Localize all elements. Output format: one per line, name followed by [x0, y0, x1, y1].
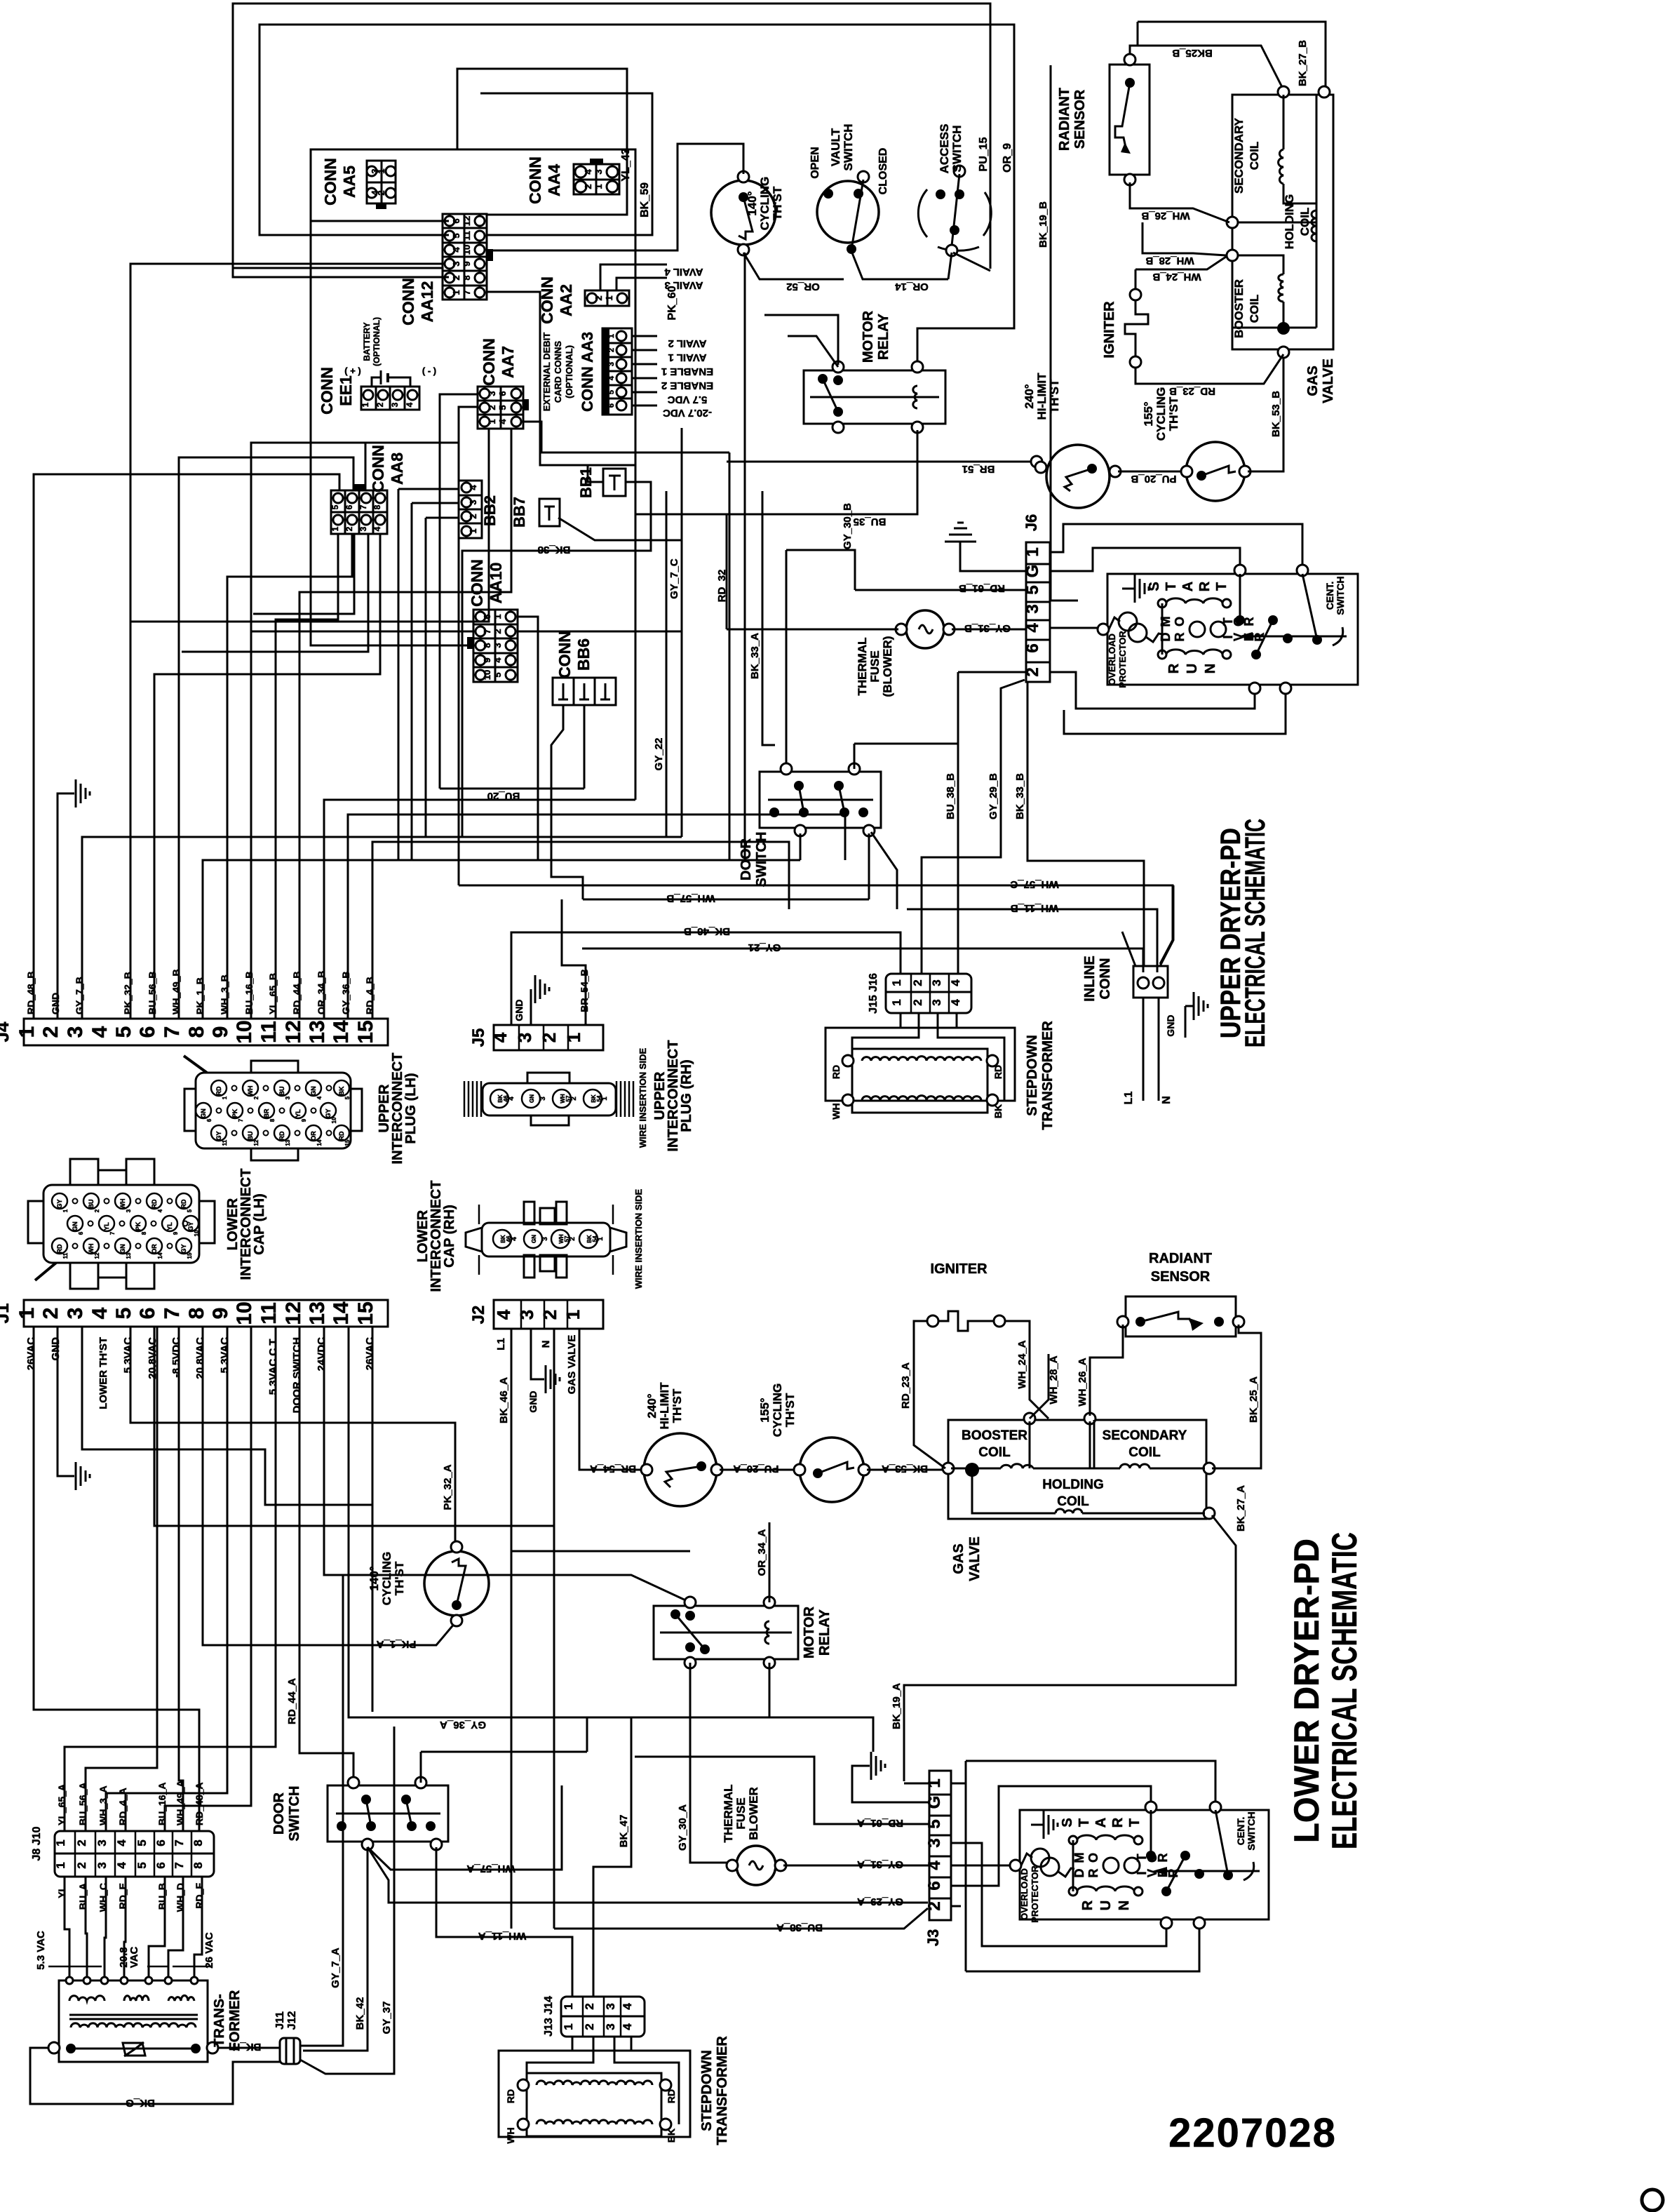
svg-text:5.3VAC: 5.3VAC — [219, 1337, 231, 1374]
thermostat 155 CYCLING THST lower — [800, 1437, 864, 1502]
wire J1 p2 GND — [58, 1327, 74, 1476]
connector J2 bar — [494, 1300, 603, 1329]
connector J1 bar — [24, 1300, 388, 1327]
wire door top right from GY_36 vertical — [420, 1752, 422, 1783]
svg-text:N: N — [1161, 1096, 1173, 1104]
connector CONN AA7 — [478, 387, 523, 429]
svg-text:WH_3_B: WH_3_B — [219, 974, 230, 1014]
ground at J3 — [852, 1766, 929, 1802]
svg-text:240°: 240° — [645, 1393, 659, 1418]
svg-text:6: 6 — [497, 391, 508, 396]
wires BB6 bottom — [551, 705, 583, 899]
svg-text:( - ): ( - ) — [422, 366, 436, 376]
svg-text:GY_7_A: GY_7_A — [330, 1948, 342, 1988]
svg-text:6: 6 — [925, 1881, 944, 1890]
svg-text:2: 2 — [583, 2003, 596, 2009]
svg-text:4: 4 — [115, 1862, 128, 1869]
svg-text:3: 3 — [593, 169, 604, 174]
wire J1 p12 RD_44_A — [299, 1327, 353, 1783]
svg-text:WH: WH — [247, 1086, 254, 1097]
svg-text:11: 11 — [62, 1252, 69, 1259]
svg-text:9: 9 — [173, 1231, 179, 1235]
wire 140thst bottom to OR_52 — [743, 253, 844, 279]
svg-text:7: 7 — [461, 290, 472, 295]
svg-text:5: 5 — [344, 1096, 351, 1099]
svg-text:155°: 155° — [758, 1397, 771, 1422]
svg-text:2: 2 — [39, 1308, 62, 1320]
svg-text:10: 10 — [482, 670, 492, 680]
svg-text:BK_42: BK_42 — [354, 1997, 366, 2030]
svg-text:BK_G: BK_G — [126, 2097, 155, 2109]
svg-text:J1: J1 — [0, 1303, 13, 1324]
svg-text:3: 3 — [95, 1839, 109, 1846]
svg-text:8: 8 — [269, 1118, 276, 1122]
svg-text:1: 1 — [451, 290, 461, 295]
svg-text:RD: RD — [180, 1199, 187, 1208]
svg-text:1: 1 — [15, 1026, 39, 1038]
svg-text:4: 4 — [88, 1026, 112, 1038]
svg-text:GN: GN — [200, 1108, 207, 1118]
svg-text:OR_34_A: OR_34_A — [756, 1529, 768, 1576]
svg-text:1: 1 — [62, 1209, 69, 1212]
svg-text:AA4: AA4 — [545, 164, 563, 196]
svg-text:CAP (RH): CAP (RH) — [442, 1205, 457, 1268]
wire GY_21 — [582, 949, 1143, 972]
wire GY_7_C — [518, 631, 682, 633]
svg-text:BK_46_A: BK_46_A — [498, 1377, 510, 1423]
punch hole circle — [1642, 2190, 1663, 2211]
svg-text:RD_4_B: RD_4_B — [364, 977, 375, 1014]
svg-text:S: S — [1147, 582, 1162, 591]
svg-text:14: 14 — [157, 1252, 163, 1259]
svg-text:PU_20_B: PU_20_B — [1131, 473, 1176, 485]
svg-text:CENT.: CENT. — [1324, 582, 1335, 610]
svg-text:5: 5 — [451, 233, 461, 238]
svg-text:2: 2 — [570, 1097, 578, 1101]
svg-text:CONN: CONN — [468, 559, 486, 607]
wire GY_22 — [666, 491, 668, 837]
svg-text:SWITCH: SWITCH — [287, 1786, 302, 1842]
svg-text:CONN AA3: CONN AA3 — [579, 332, 596, 412]
svg-text:3: 3 — [492, 643, 503, 648]
svg-text:BR_54_A: BR_54_A — [590, 1463, 636, 1475]
svg-text:GY_21: GY_21 — [748, 941, 781, 953]
svg-text:WIRE INSERTION SIDE: WIRE INSERTION SIDE — [633, 1189, 644, 1289]
svg-text:4: 4 — [949, 979, 962, 986]
svg-text:AVAIL 1: AVAIL 1 — [668, 351, 706, 363]
svg-text:BK: BK — [992, 1104, 1004, 1118]
svg-text:OVERLOAD: OVERLOAD — [1107, 634, 1117, 685]
svg-text:3: 3 — [514, 1033, 535, 1043]
svg-text:1: 1 — [222, 1096, 228, 1099]
wire WH_24_B — [1135, 257, 1226, 269]
svg-text:BOOSTER: BOOSTER — [1232, 279, 1246, 338]
svg-text:CONN: CONN — [526, 156, 544, 204]
sensor RADIANT SENSOR lower — [1126, 1296, 1236, 1336]
svg-text:13: 13 — [306, 1020, 329, 1043]
svg-text:9: 9 — [209, 1026, 232, 1038]
svg-text:7: 7 — [161, 1308, 184, 1320]
svg-text:1: 1 — [330, 526, 340, 531]
svg-text:TRANSFORMER: TRANSFORMER — [715, 2036, 730, 2145]
wire J1 p7 WH_49_A — [179, 1327, 183, 1831]
wire J1 p10 BU_16_A — [165, 1327, 251, 1831]
svg-text:26VAC: 26VAC — [25, 1337, 37, 1370]
svg-text:4: 4 — [115, 1839, 128, 1846]
svg-text:GN: GN — [310, 1086, 317, 1096]
svg-text:SECONDARY: SECONDARY — [1103, 1428, 1187, 1443]
svg-text:1: 1 — [376, 168, 386, 173]
svg-text:J11: J11 — [274, 2011, 286, 2030]
svg-text:WH_C: WH_C — [97, 1883, 109, 1912]
svg-text:4: 4 — [492, 657, 503, 663]
wire AA10 left wires — [311, 221, 473, 645]
svg-text:O: O — [1086, 1853, 1100, 1863]
svg-text:3: 3 — [604, 2023, 617, 2030]
wire BK_53_A — [867, 1469, 945, 1471]
svg-text:TH'ST: TH'ST — [783, 1393, 797, 1427]
wire WH_24_A — [1005, 1321, 1049, 1419]
svg-text:2: 2 — [539, 1033, 560, 1043]
wire J1 p3 — [82, 1327, 372, 1505]
wire BK_33_A vertical — [762, 491, 775, 745]
connector CONN EE1 with battery — [361, 387, 419, 410]
svg-text:9: 9 — [209, 1308, 232, 1320]
svg-text:2: 2 — [75, 1839, 88, 1846]
svg-text:BK_53_A: BK_53_A — [882, 1463, 928, 1475]
svg-text:2: 2 — [492, 629, 503, 634]
svg-text:GND: GND — [50, 993, 61, 1014]
wire GY_29_A — [368, 1847, 928, 1903]
svg-text:GY_29_B: GY_29_B — [987, 773, 999, 819]
svg-text:J5: J5 — [469, 1028, 488, 1047]
svg-text:5: 5 — [925, 1819, 944, 1828]
svg-text:PK: PK — [135, 1221, 142, 1231]
svg-text:GY_31_B: GY_31_B — [964, 622, 1011, 634]
svg-text:IGNITER: IGNITER — [1102, 301, 1117, 358]
svg-text:CONN: CONN — [555, 631, 574, 678]
svg-text:GY_7_B: GY_7_B — [74, 977, 85, 1014]
svg-text:13: 13 — [126, 1252, 132, 1259]
svg-text:5: 5 — [187, 1209, 193, 1212]
svg-text:GY: GY — [180, 1244, 187, 1253]
stepdown transformer lower — [499, 2051, 690, 2137]
relay MOTOR RELAY upper — [804, 370, 945, 424]
svg-text:U: U — [1098, 1901, 1114, 1910]
wire J6 row1 right to motor — [1050, 524, 1302, 568]
wire relay bottom right BK_47 — [769, 1663, 771, 1717]
svg-text:12: 12 — [253, 1139, 259, 1146]
wire door switch top-left vertical — [786, 550, 788, 769]
svg-text:1: 1 — [593, 184, 604, 189]
svg-text:2: 2 — [375, 402, 385, 407]
wire J1 p13 24VDC to relay — [324, 1327, 690, 1602]
wire AA7 right to RD_32 — [523, 422, 729, 453]
svg-text:GAS: GAS — [1305, 366, 1321, 396]
svg-text:3: 3 — [487, 391, 497, 396]
door switch lower — [328, 1785, 448, 1842]
svg-text:GND: GND — [50, 1337, 62, 1361]
switch ACCESS SWITCH — [918, 189, 927, 237]
svg-text:10: 10 — [331, 1117, 337, 1123]
wire J2 pin3 GND — [531, 1329, 544, 1379]
svg-text:COIL: COIL — [1248, 142, 1261, 170]
svg-text:6: 6 — [451, 218, 461, 223]
svg-text:DOOR: DOOR — [271, 1792, 287, 1835]
wire BK_33_B — [1027, 682, 1144, 966]
svg-text:J15 J16: J15 J16 — [868, 973, 879, 1014]
svg-text:CYCLING: CYCLING — [758, 177, 771, 231]
svg-text:L1: L1 — [1123, 1092, 1135, 1105]
svg-text:AVAIL 4: AVAIL 4 — [664, 266, 703, 278]
svg-text:WH: WH — [119, 1199, 126, 1209]
svg-text:2: 2 — [376, 190, 386, 195]
svg-text:MOTOR: MOTOR — [802, 1606, 817, 1658]
svg-text:WH_11_B: WH_11_B — [1011, 902, 1059, 914]
svg-text:2: 2 — [451, 275, 461, 280]
wire 140thst bottom long vertical — [744, 253, 746, 860]
svg-text:EE1: EE1 — [337, 375, 355, 406]
wire GY_31_A — [783, 1865, 929, 1867]
svg-text:GY_36_A: GY_36_A — [440, 1719, 486, 1731]
svg-text:8: 8 — [191, 1862, 205, 1868]
svg-text:GY_30_B: GY_30_B — [842, 503, 854, 549]
svg-text:GY: GY — [325, 1108, 332, 1118]
svg-text:7: 7 — [482, 629, 492, 634]
svg-text:8: 8 — [141, 1231, 147, 1235]
svg-text:24VDC: 24VDC — [316, 1337, 328, 1372]
wire GY_31_B — [952, 629, 1026, 631]
svg-text:R: R — [1156, 1854, 1170, 1863]
svg-text:THERMAL: THERMAL — [722, 1784, 735, 1842]
ground at J6 — [960, 542, 1026, 571]
svg-text:CAP (LH): CAP (LH) — [252, 1193, 267, 1254]
svg-text:CENT.: CENT. — [1235, 1817, 1246, 1845]
wires BB2 left stubs — [398, 488, 459, 490]
wire fuse left — [727, 629, 898, 631]
svg-text:1: 1 — [487, 419, 497, 424]
svg-text:BK_33_A: BK_33_A — [749, 633, 761, 679]
svg-text:GY_22: GY_22 — [653, 738, 665, 771]
svg-text:CYCLING: CYCLING — [380, 1552, 393, 1606]
svg-text:10: 10 — [233, 1020, 256, 1043]
svg-text:L1: L1 — [495, 1338, 507, 1350]
svg-text:AA5: AA5 — [340, 166, 358, 198]
svg-text:IGNITER: IGNITER — [930, 1261, 987, 1277]
svg-text:8: 8 — [482, 643, 492, 648]
svg-text:PROTECTOR: PROTECTOR — [1117, 631, 1128, 688]
svg-text:(OPTIONAL): (OPTIONAL) — [372, 317, 382, 366]
svg-text:TH'ST: TH'ST — [670, 1388, 684, 1423]
thermostat 240 HI-LIMIT THST upper — [1046, 445, 1110, 508]
wire OR_34_A — [769, 1522, 771, 1602]
sensor RADIANT SENSOR upper — [1110, 65, 1150, 175]
svg-text:4: 4 — [925, 1861, 944, 1870]
wire WH_26_A — [1090, 1325, 1123, 1416]
svg-text:O: O — [1173, 617, 1187, 626]
ground inside motor — [1122, 588, 1135, 590]
wire long mid verticals — [398, 489, 400, 860]
svg-text:5.3VAC C.T.: 5.3VAC C.T. — [267, 1337, 279, 1395]
svg-text:1: 1 — [1023, 547, 1042, 556]
svg-text:BU_B: BU_B — [156, 1883, 168, 1910]
wire frame W3 (AA12 to inner loop, long vertical x906) — [311, 149, 635, 800]
svg-text:SWITCH: SWITCH — [950, 125, 964, 172]
svg-text:TH'ST: TH'ST — [1167, 396, 1180, 431]
svg-text:7: 7 — [173, 1839, 186, 1846]
wire BK_27_A / BK_19_A — [904, 1515, 1236, 1781]
wire J4 p12 RD_44_B — [299, 429, 511, 1019]
svg-text:HOLDING: HOLDING — [1042, 1477, 1104, 1492]
svg-text:N: N — [1203, 664, 1218, 673]
wire J6 rowG right to motor — [1050, 548, 1240, 571]
svg-text:BU_56_A: BU_56_A — [77, 1783, 88, 1825]
svg-text:GY_7_C: GY_7_C — [668, 558, 680, 599]
svg-text:WH_11_A: WH_11_A — [478, 1930, 527, 1942]
svg-text:CONN: CONN — [1098, 958, 1113, 1000]
svg-text:12: 12 — [94, 1252, 100, 1259]
wire thermal fuse left feed — [726, 514, 728, 629]
wire GY_30_B — [786, 550, 855, 590]
svg-text:CLOSED: CLOSED — [877, 148, 889, 195]
svg-text:LOWER TH'ST: LOWER TH'ST — [97, 1337, 109, 1409]
wire BB7 tail to GY_7_C — [558, 518, 682, 540]
wire GY_37 from J11 J12 — [300, 1727, 394, 2074]
svg-text:4: 4 — [493, 1309, 514, 1320]
svg-text:WH_57_C: WH_57_C — [1010, 878, 1058, 890]
wire p14 GY_36_B horiz — [348, 815, 845, 1019]
svg-text:BK_53_B: BK_53_B — [1270, 391, 1282, 437]
svg-text:RD_61_B: RD_61_B — [959, 582, 1005, 594]
wire BK_H to J11 J12 — [218, 2047, 280, 2049]
svg-text:2: 2 — [75, 1862, 88, 1868]
svg-text:GND: GND — [1165, 1014, 1176, 1036]
wire BK_46_B — [511, 932, 901, 1025]
wire p15 RD_4_B horiz — [372, 842, 789, 1019]
svg-text:9: 9 — [482, 657, 492, 662]
wires below door switch — [800, 833, 802, 860]
svg-text:AVAIL 2: AVAIL 2 — [668, 337, 706, 349]
svg-text:RD_61_A: RD_61_A — [857, 1817, 903, 1829]
svg-text:HI-LIMIT: HI-LIMIT — [658, 1382, 671, 1430]
svg-text:BK_25_A: BK_25_A — [1248, 1376, 1260, 1423]
svg-text:1: 1 — [562, 2003, 575, 2009]
svg-text:3: 3 — [64, 1308, 87, 1320]
connector J5 bar — [494, 1025, 603, 1050]
svg-text:7: 7 — [358, 504, 368, 509]
svg-text:RD: RD — [151, 1199, 158, 1208]
svg-text:3: 3 — [358, 526, 368, 531]
wire J1 p14 GY_36_A — [349, 1327, 873, 1752]
svg-text:155°: 155° — [1142, 401, 1155, 426]
svg-text:6: 6 — [136, 1026, 159, 1038]
svg-text:PK_32_B: PK_32_B — [122, 972, 133, 1014]
svg-text:5: 5 — [135, 1839, 149, 1846]
svg-text:4: 4 — [405, 402, 414, 407]
svg-text:20.8VAC: 20.8VAC — [194, 1337, 206, 1379]
svg-text:BU_56_B: BU_56_B — [147, 972, 158, 1014]
svg-text:TH'ST: TH'ST — [1048, 379, 1061, 413]
svg-text:PROTECTOR: PROTECTOR — [1030, 1865, 1040, 1923]
svg-text:8: 8 — [185, 1308, 208, 1320]
svg-text:2207028: 2207028 — [1168, 2110, 1337, 2156]
wire OR_14 — [882, 279, 948, 281]
svg-text:OVERLOAD: OVERLOAD — [1019, 1868, 1030, 1920]
svg-text:3: 3 — [516, 1310, 537, 1320]
svg-text:2: 2 — [539, 1310, 560, 1320]
svg-text:GND: GND — [527, 1390, 539, 1412]
svg-text:6: 6 — [154, 1862, 168, 1868]
svg-text:5: 5 — [607, 390, 616, 394]
svg-text:6: 6 — [78, 1231, 84, 1235]
wire J4 p11 YL_65_B — [276, 534, 338, 1019]
svg-text:OR_9: OR_9 — [1002, 143, 1013, 173]
svg-text:WH: WH — [88, 1244, 95, 1254]
svg-text:14: 14 — [330, 1020, 353, 1044]
wire top loop to gas valve right terminal — [1138, 22, 1326, 88]
svg-text:G: G — [1023, 565, 1042, 578]
wire J1 p9 WH_3_A — [106, 1327, 227, 1831]
svg-text:1: 1 — [15, 1308, 39, 1320]
svg-text:GAS VALVE: GAS VALVE — [566, 1335, 578, 1394]
run coil — [1158, 650, 1166, 659]
connector CONN AA12 — [443, 214, 487, 300]
svg-text:8: 8 — [185, 1026, 208, 1038]
svg-text:15: 15 — [354, 1020, 377, 1043]
svg-text:11: 11 — [461, 231, 472, 241]
svg-text:S: S — [1060, 1818, 1075, 1827]
svg-text:WH_24_A: WH_24_A — [1016, 1340, 1028, 1388]
switch VAULT SWITCH — [817, 181, 879, 243]
svg-text:3: 3 — [468, 500, 478, 504]
svg-text:R: R — [1173, 633, 1187, 642]
wire BR_51 — [727, 461, 1034, 463]
svg-text:J6: J6 — [1023, 514, 1040, 531]
svg-text:BB6: BB6 — [574, 638, 593, 671]
wire PU_20_A — [720, 1469, 800, 1471]
ground symbol right of inline conn — [1185, 1006, 1187, 1038]
svg-text:2: 2 — [253, 1096, 259, 1099]
svg-text:R: R — [1166, 663, 1182, 673]
wire J6 row4 right to overload — [1050, 627, 1100, 629]
svg-text:5.3 VAC: 5.3 VAC — [35, 1931, 47, 1970]
wire WH_28_B — [1142, 222, 1226, 255]
wire J4 p6 BU_56_B — [154, 534, 380, 1019]
wire BK_53_B — [1248, 354, 1283, 471]
svg-text:2: 2 — [911, 999, 924, 1005]
svg-text:15: 15 — [344, 1139, 351, 1146]
wire BK_47 — [593, 1717, 631, 1997]
svg-text:FUSE: FUSE — [868, 650, 882, 682]
wire J4 p13 OR_34_B — [324, 800, 635, 1019]
svg-text:VALVE: VALVE — [967, 1536, 983, 1581]
svg-text:BK_59: BK_59 — [639, 182, 651, 217]
connector UPPER INTERCONNECT PLUG (LH) — [196, 1073, 351, 1148]
wire J4 p10 BU_16_B — [253, 534, 354, 614]
svg-text:8: 8 — [372, 504, 382, 509]
connector UPPER INTERCONNECT PLUG (RH) — [483, 1083, 616, 1115]
svg-text:MOTOR: MOTOR — [861, 310, 876, 363]
thermostat 240 HI-LIMIT THST lower — [644, 1433, 717, 1506]
igniter lower — [927, 1315, 938, 1327]
svg-text:BK_33_B: BK_33_B — [1014, 773, 1026, 819]
svg-text:3: 3 — [607, 362, 616, 366]
svg-text:4: 4 — [88, 1307, 112, 1319]
wire J1 p11 YL_65_A — [65, 1327, 276, 1831]
svg-text:M: M — [1072, 1853, 1086, 1863]
svg-text:TRANS-: TRANS- — [212, 1994, 227, 2047]
svg-text:11: 11 — [257, 1021, 281, 1043]
